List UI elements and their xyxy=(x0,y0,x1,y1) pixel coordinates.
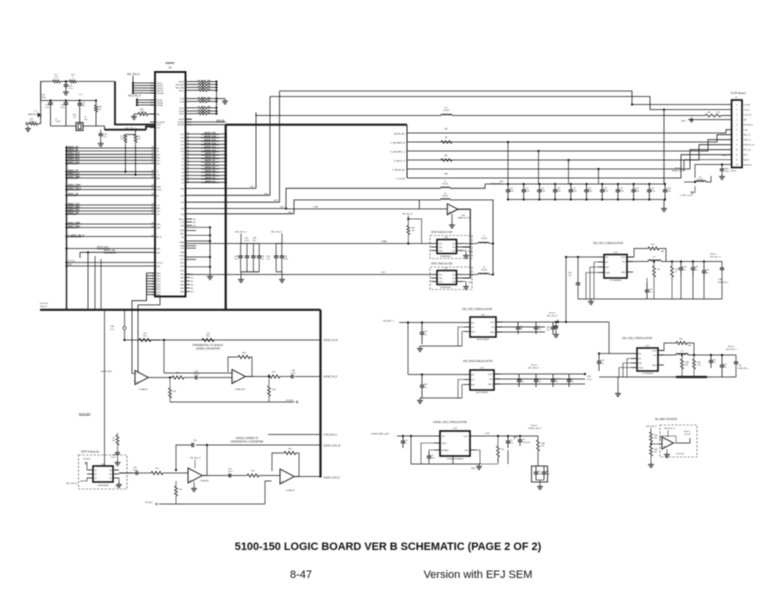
wire long line y91 to RF pin1 xyxy=(280,91,732,105)
wire data line ADDR_D2 xyxy=(186,178,226,180)
regulator U12 xyxy=(470,370,494,390)
wire long line y115 with resistor to RF pin3 xyxy=(256,113,441,116)
wire data line ADDR_D7 xyxy=(186,161,226,163)
capacitor C28 xyxy=(100,130,102,134)
svg-text:Source: Source xyxy=(710,254,717,256)
capacitor C73 470p xyxy=(554,184,556,190)
svg-text:CS1: CS1 xyxy=(180,195,184,197)
inductor L3 xyxy=(684,181,695,183)
svg-text:SDO: SDO xyxy=(744,154,749,156)
ground ref divider xyxy=(650,462,652,465)
bottom rail regulator1 xyxy=(578,298,722,300)
wire to AUDIO_IN_M xyxy=(151,339,321,341)
svg-text:U74AC86: U74AC86 xyxy=(200,480,210,483)
wire address line ADDC_T5 xyxy=(65,171,67,173)
ASIC left lower pins xyxy=(147,272,156,274)
capacitor C77 470p xyxy=(617,184,619,190)
svg-text:68k: 68k xyxy=(661,251,664,253)
svg-text:HE3: HE3 xyxy=(180,281,184,283)
svg-text:99: 99 xyxy=(152,153,154,155)
svg-text:SW_VD4_8: SW_VD4_8 xyxy=(646,426,657,428)
svg-text:GND1: GND1 xyxy=(652,365,657,367)
resistor R11 xyxy=(53,80,61,83)
svg-text:Source: Source xyxy=(531,425,538,427)
ground cap bank2 xyxy=(281,272,283,277)
svg-text:GND 1: GND 1 xyxy=(442,443,448,445)
svg-text:A10: A10 xyxy=(157,153,160,156)
ASIC bottom wrap wires xyxy=(132,301,147,374)
svg-text:VR_AL2: VR_AL2 xyxy=(145,501,153,504)
svg-text:HE1: HE1 xyxy=(180,274,184,276)
svg-text:U74AC86-2: U74AC86-2 xyxy=(235,388,246,391)
polarized capacitor C1c xyxy=(519,436,521,440)
capacitor row bus xyxy=(485,183,664,185)
svg-text:A2: A2 xyxy=(157,150,159,153)
svg-text:1/W: 1/W xyxy=(207,89,211,91)
svg-text:BYPASS: BYPASS xyxy=(442,449,450,452)
capacitor C70 470p xyxy=(507,184,509,190)
wire xyxy=(60,80,69,82)
svg-text:NLAS4684A: NLAS4684A xyxy=(97,484,109,487)
wire address line ADDC_OE xyxy=(65,213,67,215)
regulator U14 xyxy=(604,255,627,279)
svg-text:C62: C62 xyxy=(545,471,548,473)
svg-text:1/W: 1/W xyxy=(207,83,211,85)
svg-text:99: 99 xyxy=(152,235,154,237)
wire data line ADDR_D4 xyxy=(186,171,226,173)
svg-text:33: 33 xyxy=(201,110,203,112)
svg-text:0.01u: 0.01u xyxy=(283,259,288,261)
svg-text:STCLK: STCLK xyxy=(157,263,164,265)
wire right to vd2_5 xyxy=(566,322,609,354)
svg-text:ADDR_A0D: ADDR_A0D xyxy=(97,245,109,248)
capacitor C72 470p xyxy=(538,184,540,190)
svg-text:ILIM: ILIM xyxy=(605,267,609,269)
svg-text:0.1u: 0.1u xyxy=(266,259,270,261)
capacitor C82 xyxy=(710,355,712,361)
op-amp U19B xyxy=(164,372,232,374)
svg-text:SW_VD0_9 REGULATOR: SW_VD0_9 REGULATOR xyxy=(462,307,492,311)
input line y340 xyxy=(125,339,161,341)
svg-text:TGND: TGND xyxy=(605,272,611,274)
op-amp U10 xyxy=(447,204,458,215)
svg-text:GND +: GND + xyxy=(722,155,729,157)
svg-text:+: + xyxy=(136,380,138,384)
svg-text:CS3: CS3 xyxy=(180,208,184,210)
svg-text:A13: A13 xyxy=(157,159,160,162)
svg-text:MD2: MD2 xyxy=(157,278,161,280)
svg-text:FLG: FLG xyxy=(490,379,494,381)
capacitor C74 470p xyxy=(570,184,572,190)
svg-text:0.01u: 0.01u xyxy=(430,458,435,460)
svg-text:P_SPK_OUT1: P_SPK_OUT1 xyxy=(680,195,694,197)
svg-text:0.1u: 0.1u xyxy=(423,387,427,389)
resistor R40 33ohm xyxy=(192,81,199,83)
crystal Y1 xyxy=(76,123,83,131)
svg-text:Lock Det: Lock Det xyxy=(744,113,752,116)
svg-text:D9: D9 xyxy=(182,155,184,157)
svg-text:39: 39 xyxy=(187,164,189,166)
svg-text:99: 99 xyxy=(152,209,154,211)
svg-text:NLAS4684-L: NLAS4684-L xyxy=(440,255,452,258)
svg-text:VDDDA: VDDDA xyxy=(157,92,165,95)
wire address line ADDC_T15 xyxy=(65,204,67,206)
svg-text:I_TS: I_TS xyxy=(180,222,185,224)
ground opamp ref xyxy=(666,449,668,452)
svg-text:C71: C71 xyxy=(430,455,433,457)
svg-text:30: 30 xyxy=(187,133,189,135)
ground cap row xyxy=(663,206,665,209)
ground C1D xyxy=(419,346,421,349)
svg-text:FLG: FLG xyxy=(654,355,658,357)
svg-text:SPST Analog Sw: SPST Analog Sw xyxy=(81,451,99,454)
feedback resistor R61b xyxy=(294,453,299,477)
svg-text:CS2: CS2 xyxy=(180,202,184,204)
wire data line ADDR_D8 xyxy=(186,157,226,159)
svg-text:10k: 10k xyxy=(654,438,657,440)
svg-text:SW_YD4_8: SW_YD4_8 xyxy=(547,316,558,318)
svg-text:0.1u: 0.1u xyxy=(261,259,265,261)
output 3.3V xyxy=(476,435,528,437)
svg-text:0.01u: 0.01u xyxy=(228,471,233,473)
svg-text:YCN: YCN xyxy=(180,99,185,101)
svg-text:SW_CH1_8: SW_CH1_8 xyxy=(128,95,141,98)
svg-text:SW_VD4_8: SW_VD4_8 xyxy=(664,428,675,430)
svg-text:270nH: 270nH xyxy=(443,110,449,112)
svg-text:SW_VD1_5: SW_VD1_5 xyxy=(710,257,721,259)
lpf wires vd2_5 xyxy=(627,359,631,378)
svg-text:82k: 82k xyxy=(685,365,688,367)
capacitor C31 xyxy=(79,99,81,101)
svg-text:C1A: C1A xyxy=(194,370,199,373)
wire P_ADDR bus 5 to RF xyxy=(407,150,732,169)
gnd bracket xyxy=(411,436,480,464)
svg-text:99: 99 xyxy=(152,226,154,228)
wire cap tap x568 xyxy=(568,160,570,184)
svg-text:To RF Board: To RF Board xyxy=(730,91,746,95)
svg-text:Fol from: Fol from xyxy=(40,302,48,305)
svg-text:STAA: STAA xyxy=(381,240,387,243)
capacitor C75 470p xyxy=(586,184,588,190)
svg-text:1.3k: 1.3k xyxy=(697,365,701,367)
svg-text:Sheet 1: Sheet 1 xyxy=(40,305,48,308)
svg-text:A12: A12 xyxy=(157,156,160,159)
capacitor bank branch x259 xyxy=(258,244,260,257)
svg-text:4.7u: 4.7u xyxy=(712,362,716,364)
output caps rail5 xyxy=(518,374,520,380)
svg-text:Source: Source xyxy=(684,431,691,433)
svg-text:D8: D8 xyxy=(182,158,184,160)
pin stubs below packs xyxy=(186,118,193,120)
wire cap tap x538 xyxy=(538,151,540,184)
svg-text:GND: GND xyxy=(468,282,473,284)
wire data line ADDR_D3 xyxy=(186,174,226,176)
input wire xyxy=(408,374,464,376)
gnd rail U13 outputs xyxy=(497,458,499,464)
svg-text:AOZ1314A-H: AOZ1314A-H xyxy=(477,338,490,341)
capacitor C29 xyxy=(49,99,51,101)
svg-text:0.1u: 0.1u xyxy=(694,269,698,271)
capacitor C1A xyxy=(184,377,196,379)
pullup connection verticals xyxy=(124,146,126,172)
svg-text:99: 99 xyxy=(152,146,154,148)
svg-text:33: 33 xyxy=(201,100,203,102)
wire P_ADDR bus 6 to RF xyxy=(407,155,732,178)
wire data line ADDR_D10 xyxy=(186,150,226,152)
P_ADDRES splitter xyxy=(406,125,408,178)
svg-text:C1A: C1A xyxy=(291,369,296,372)
svg-text:36: 36 xyxy=(187,153,189,155)
cap row to pin2 riser xyxy=(663,110,665,184)
input wire vd2_5 xyxy=(609,353,631,355)
svg-text:0.1u: 0.1u xyxy=(234,259,238,261)
svg-text:1/W: 1/W xyxy=(207,107,211,109)
capacitor C65 xyxy=(65,99,67,101)
svg-text:D4: D4 xyxy=(182,172,184,174)
svg-text:STO: STO xyxy=(381,272,386,274)
svg-text:D11: D11 xyxy=(181,148,184,150)
wire address line ADDC_L15 xyxy=(65,174,67,176)
svg-text:10k: 10k xyxy=(654,452,657,454)
ground U13 xyxy=(478,464,480,467)
feedback resistor R54 xyxy=(245,357,252,377)
svg-text:99: 99 xyxy=(152,162,154,164)
svg-text:ILIM: ILIM xyxy=(471,384,475,386)
op-amp U18 xyxy=(651,443,662,445)
svg-text:A15: A15 xyxy=(157,163,160,166)
inductor L8 xyxy=(463,274,478,276)
svg-text:SPI_Clk: SPI_Clk xyxy=(744,149,751,151)
ground cap bank1 xyxy=(240,272,242,277)
svg-text:C9c: C9c xyxy=(509,440,512,442)
svg-text:U2: U2 xyxy=(168,66,172,70)
vertical to rail5 xyxy=(407,323,409,375)
svg-text:+: + xyxy=(189,479,191,483)
svg-text:Source: Source xyxy=(728,346,735,348)
capacitor C7a xyxy=(402,436,404,441)
svg-text:4.7K: 4.7K xyxy=(716,112,721,114)
svg-text:D13: D13 xyxy=(181,141,184,143)
svg-text:68n: 68n xyxy=(520,381,523,383)
svg-text:Audio En: Audio En xyxy=(744,163,752,166)
resistor R60 xyxy=(247,474,259,477)
svg-text:1/W: 1/W xyxy=(207,110,211,112)
wire to ILIM ctrl xyxy=(704,262,722,269)
svg-text:TxDup: TxDup xyxy=(744,109,751,111)
svg-text:44: 44 xyxy=(187,181,189,183)
svg-text:FLG: FLG xyxy=(623,261,627,263)
resistor R48 33ohm xyxy=(192,113,199,115)
svg-text:GND: GND xyxy=(115,486,120,488)
svg-text:27SA: 27SA xyxy=(313,206,319,209)
svg-text:ILIM: ILIM xyxy=(638,363,642,365)
resistor R53 xyxy=(172,376,184,379)
capacitor bank2 branch x282 xyxy=(281,244,283,257)
svg-text:LTC3406B-B: LTC3406B-B xyxy=(610,280,622,282)
capacitor C9e xyxy=(228,474,230,478)
wire data line ADDR_D15 xyxy=(186,133,226,135)
svg-text:Batt In: Batt In xyxy=(744,158,750,161)
svg-text:C61: C61 xyxy=(537,471,540,473)
wire L6 tap to opamp xyxy=(418,200,420,209)
resistor R47 33ohm xyxy=(192,110,199,112)
svg-text:GND1: GND1 xyxy=(490,332,495,334)
svg-text:TLV2764: TLV2764 xyxy=(676,454,685,456)
svg-text:UTM6949-33AH-A: UTM6949-33AH-A xyxy=(447,458,464,461)
address bus vertical xyxy=(66,146,68,310)
svg-text:D12: D12 xyxy=(181,144,184,146)
resistor R18 xyxy=(124,135,127,143)
svg-text:4.7k: 4.7k xyxy=(54,77,58,79)
output wires rail5 xyxy=(494,373,585,375)
svg-text:34: 34 xyxy=(187,146,189,148)
feedback resistor R31 xyxy=(658,343,676,351)
svg-text:270nH: 270nH xyxy=(442,195,448,197)
svg-text:2.2u: 2.2u xyxy=(537,381,541,383)
ground C9c xyxy=(507,450,509,464)
svg-text:L15: L15 xyxy=(157,175,160,177)
svg-text:D14: D14 xyxy=(181,137,184,139)
wire pin stub y248 xyxy=(186,247,197,249)
resistor R42 xyxy=(650,446,653,456)
svg-text:GND +: GND + xyxy=(681,121,688,123)
svg-text:Cont: Cont xyxy=(744,128,749,131)
wire data line ADDR_D5 xyxy=(186,168,226,170)
capacitor C9c xyxy=(507,436,509,441)
svg-text:STRc: STRc xyxy=(179,114,184,116)
svg-text:43: 43 xyxy=(187,177,189,179)
wire cap tap x598 xyxy=(598,169,600,184)
svg-text:PA_CTL: PA_CTL xyxy=(744,133,752,136)
resistor R45 33ohm xyxy=(192,100,199,102)
svg-text:2.2u: 2.2u xyxy=(537,329,541,331)
wire to L6 line xyxy=(186,213,295,215)
svg-text:SW_VD2_5: SW_VD2_5 xyxy=(726,349,737,351)
svg-text:33: 33 xyxy=(201,86,203,88)
wire address line ADDC_A15 xyxy=(65,162,67,164)
svg-text:7k: 7k xyxy=(675,272,677,274)
resistor R32 xyxy=(681,354,683,356)
svg-text:SW_AV1_Y: SW_AV1_Y xyxy=(383,320,395,323)
resistor R55 xyxy=(268,375,280,378)
svg-text:99: 99 xyxy=(152,159,154,161)
resistor R52 xyxy=(202,338,214,341)
ILIM cap xyxy=(728,355,736,362)
svg-text:COM_AUX_L: COM_AUX_L xyxy=(324,434,339,437)
op-amp U20A xyxy=(188,468,202,483)
wire pin stub y246 xyxy=(186,245,197,247)
wire VR_AL2 to opamp2 xyxy=(265,481,272,504)
svg-text:ST1: ST1 xyxy=(181,259,184,261)
feedback capacitor C84 xyxy=(196,445,207,476)
capacitor C71 470p xyxy=(523,184,525,190)
capacitor C26 xyxy=(65,80,67,82)
wire P_ADDR bus 1 to RF xyxy=(407,130,732,133)
svg-text:U74AC86: U74AC86 xyxy=(286,489,296,492)
wire address line ADDC_WE5 xyxy=(65,223,67,225)
svg-text:YCM: YCM xyxy=(180,101,185,103)
capacitor C83 xyxy=(721,355,723,365)
svg-text:0.1u: 0.1u xyxy=(110,329,114,331)
svg-text:Source: Source xyxy=(675,168,682,170)
wire address line P_ADDC_AE_A xyxy=(65,235,67,237)
svg-text:D7: D7 xyxy=(182,162,184,164)
wire P_ADDR bus 3 to RF xyxy=(407,140,732,151)
output wire xyxy=(245,376,268,378)
svg-text:99: 99 xyxy=(152,156,154,158)
capacitor C76 470p xyxy=(601,184,603,190)
svg-text:ANALOG ON: ANALOG ON xyxy=(458,217,470,220)
svg-text:1/W: 1/W xyxy=(207,80,211,82)
svg-text:MD0: MD0 xyxy=(157,273,161,275)
svg-text:270nH: 270nH xyxy=(442,184,448,186)
svg-text:C5B: C5B xyxy=(587,376,592,378)
capacitor C6B xyxy=(115,452,120,454)
svg-text:D15: D15 xyxy=(181,134,184,136)
wire G29 to RF xyxy=(186,194,271,196)
svg-text:+49p: +49p xyxy=(725,171,729,173)
svg-text:TGND: TGND xyxy=(638,367,644,369)
svg-text:D3: D3 xyxy=(182,175,184,177)
capacitor C9B source node xyxy=(555,321,557,323)
svg-text:Source: Source xyxy=(549,313,556,315)
svg-text:AUDIO_OUX_P: AUDIO_OUX_P xyxy=(324,477,341,480)
svg-text:P_ADLE_U: P_ADLE_U xyxy=(394,160,406,163)
net Fol from Sheet1 bold bus xyxy=(40,309,321,311)
wire address line ADDC_A12 xyxy=(65,156,67,158)
svg-text:WE1: WE1 xyxy=(157,228,161,230)
svg-text:HD15: HD15 xyxy=(157,190,162,192)
svg-text:4.7u: 4.7u xyxy=(682,269,686,271)
svg-text:C5d: C5d xyxy=(554,378,557,380)
svg-text:TxRx_In: TxRx_In xyxy=(744,139,751,141)
capacitor bank branch x247 xyxy=(246,244,248,257)
svg-text:GND: GND xyxy=(465,450,470,452)
net A1D xyxy=(65,265,67,267)
capacitor C4B xyxy=(421,375,423,386)
wire to ASIC bus xyxy=(76,80,115,82)
svg-text:3.3V: 3.3V xyxy=(485,433,490,435)
svg-text:+: + xyxy=(233,379,235,383)
svg-text:31: 31 xyxy=(187,136,189,138)
svg-text:NLAS4684-L: NLAS4684-L xyxy=(440,286,452,289)
capacitor C90 at RF xyxy=(721,165,723,170)
svg-text:A5: A5 xyxy=(157,194,159,197)
inductor L9 xyxy=(658,354,676,356)
wire P_ADDR bus 2 to RF xyxy=(407,135,732,142)
svg-text:SPKR_OUT1: SPKR_OUT1 xyxy=(672,171,685,173)
svg-text:AUDIO_OUX_M: AUDIO_OUX_M xyxy=(324,445,341,448)
resistor R36 xyxy=(537,440,540,451)
svg-text:UHSW_VD3_3 REGULATOR: UHSW_VD3_3 REGULATOR xyxy=(433,420,467,424)
svg-text:SW_VD4_8: SW_VD4_8 xyxy=(235,231,247,233)
ground reg vd2_5 xyxy=(617,377,619,391)
vertical junction to opamp2 xyxy=(163,340,165,373)
svg-text:SW_VD4_8: SW_VD4_8 xyxy=(127,73,140,76)
wire G30 to RF xyxy=(186,187,257,189)
resistor R29 xyxy=(671,266,674,277)
svg-text:ADDR_WA: ADDR_WA xyxy=(104,249,115,252)
resistor R2 xyxy=(30,122,38,125)
svg-text:MD3: MD3 xyxy=(157,281,161,283)
op-amp ASIC U2 box xyxy=(155,72,186,297)
svg-text:470p: 470p xyxy=(545,474,549,476)
resistor R41 33ohm xyxy=(192,83,199,85)
svg-text:10u: 10u xyxy=(568,275,571,277)
svg-text:37: 37 xyxy=(187,157,189,159)
svg-text:GND1: GND1 xyxy=(488,384,493,386)
lpf wires xyxy=(594,262,598,299)
